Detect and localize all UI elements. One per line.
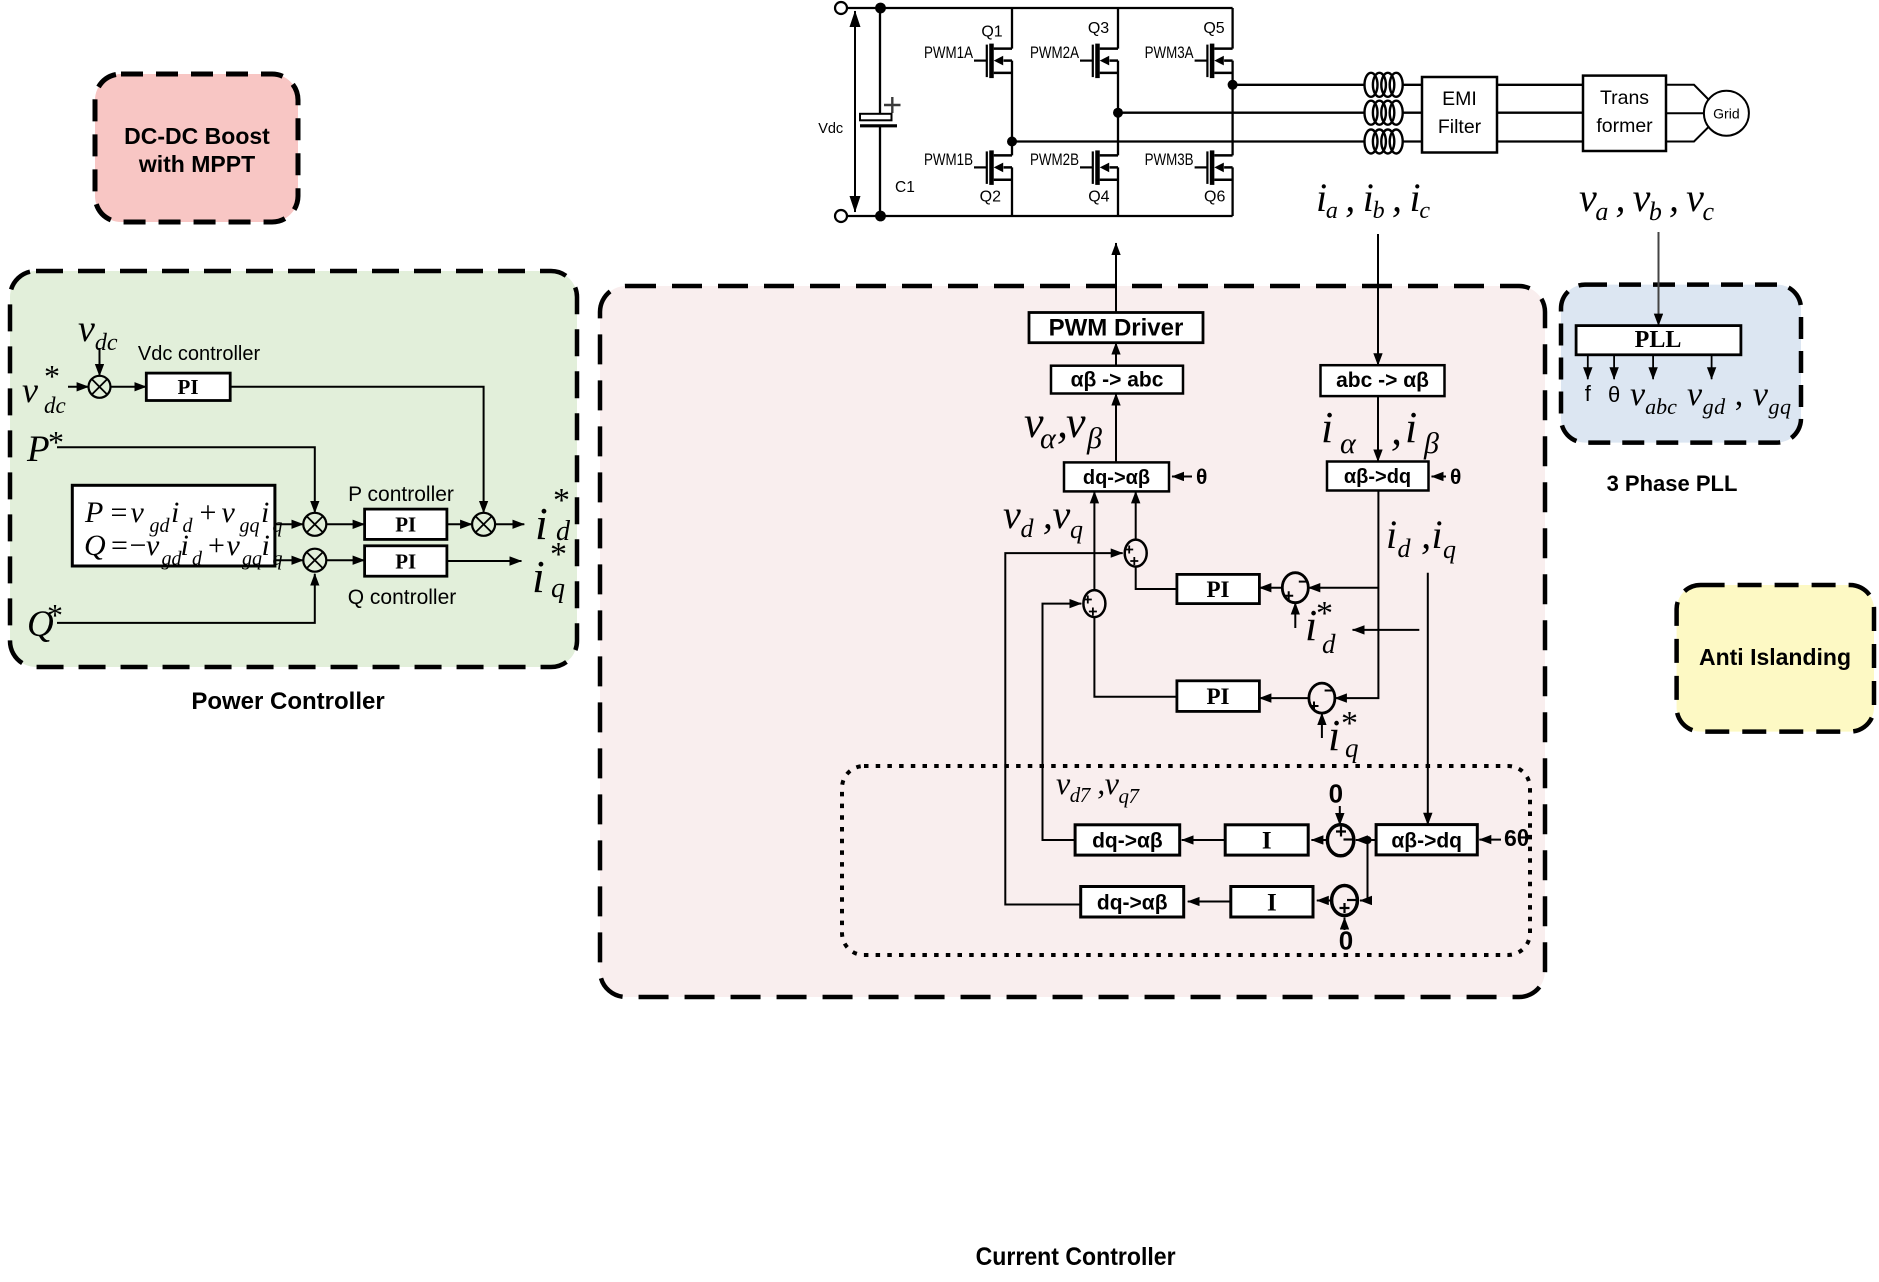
svg-text:β: β [1086, 422, 1102, 455]
svg-text:6θ: 6θ [1504, 825, 1529, 851]
svg-text:q: q [551, 573, 565, 604]
svg-text:v: v [131, 496, 145, 529]
svg-text:αβ->dq: αβ->dq [1344, 466, 1411, 488]
svg-text:Q1: Q1 [981, 24, 1002, 41]
svg-text:abc -> αβ: abc -> αβ [1336, 369, 1429, 392]
svg-text:C1: C1 [895, 179, 915, 196]
svg-text:Grid: Grid [1713, 106, 1739, 122]
svg-text:3 Phase PLL: 3 Phase PLL [1607, 471, 1738, 496]
svg-text:d: d [192, 548, 203, 570]
svg-text:θ: θ [1450, 466, 1461, 489]
svg-text:with MPPT: with MPPT [138, 151, 255, 177]
svg-text:α: α [1040, 422, 1057, 455]
svg-text:q: q [1345, 733, 1359, 763]
svg-text:i: i [261, 496, 269, 529]
svg-text:0: 0 [1339, 926, 1353, 956]
svg-text:0: 0 [1329, 779, 1343, 809]
svg-text:v: v [222, 496, 236, 529]
svg-text:Vdc: Vdc [818, 121, 843, 137]
svg-text:*: * [47, 597, 63, 633]
svg-text:i: i [171, 496, 179, 529]
svg-text:PI: PI [395, 550, 416, 574]
svg-text:d: d [1322, 629, 1336, 659]
svg-text:dq->αβ: dq->αβ [1092, 830, 1163, 853]
svg-text:Q4: Q4 [1088, 189, 1109, 206]
svg-text:=: = [111, 496, 128, 529]
svg-text:Vdc controller: Vdc controller [138, 343, 261, 365]
svg-text:i: i [181, 529, 189, 562]
svg-text:PI: PI [1207, 577, 1230, 602]
svg-text:PWM3B: PWM3B [1145, 150, 1194, 169]
svg-text:EMI: EMI [1442, 88, 1477, 110]
svg-text:dq->αβ: dq->αβ [1097, 892, 1168, 915]
svg-text:Power Controller: Power Controller [191, 688, 384, 715]
svg-text:I: I [1262, 828, 1272, 855]
svg-text:PI: PI [178, 375, 199, 399]
svg-text:v: v [146, 529, 160, 562]
svg-text:v: v [227, 529, 241, 562]
svg-text:αβ -> abc: αβ -> abc [1071, 369, 1164, 392]
svg-text:dc: dc [44, 393, 66, 418]
svg-text:Q3: Q3 [1088, 20, 1109, 37]
svg-text:=: = [111, 529, 128, 562]
svg-text:i: i [532, 551, 545, 602]
svg-text:PWM Driver: PWM Driver [1049, 315, 1184, 342]
svg-text:P: P [84, 496, 103, 529]
svg-text:v: v [1066, 398, 1086, 447]
svg-text:q: q [273, 548, 283, 570]
svg-text:i: i [262, 529, 270, 562]
svg-text:Filter: Filter [1438, 116, 1482, 138]
svg-text:Q2: Q2 [980, 189, 1001, 206]
svg-text:former: former [1596, 115, 1653, 137]
svg-text:DC-DC Boost: DC-DC Boost [124, 123, 270, 149]
svg-text:θ: θ [1608, 382, 1620, 407]
svg-text:+: + [208, 529, 225, 562]
svg-text:dq->αβ: dq->αβ [1083, 467, 1150, 489]
svg-text:Anti Islanding: Anti Islanding [1699, 644, 1851, 670]
svg-text:I: I [1267, 890, 1277, 917]
svg-text:β: β [1423, 427, 1439, 460]
svg-text:+: + [200, 496, 217, 529]
svg-text:P: P [26, 429, 50, 470]
svg-text:i: i [1321, 403, 1333, 452]
svg-text:PI: PI [1207, 684, 1230, 709]
svg-text:PWM1B: PWM1B [924, 150, 973, 169]
svg-text:gd: gd [162, 548, 183, 570]
svg-text:Current Controller: Current Controller [976, 1243, 1176, 1271]
svg-text:i: i [1405, 403, 1417, 452]
svg-text:gq: gq [240, 515, 260, 537]
svg-text:f: f [1585, 381, 1592, 406]
svg-text:Q: Q [84, 529, 106, 562]
svg-text:gq: gq [242, 548, 262, 570]
svg-text:αβ->dq: αβ->dq [1391, 829, 1462, 852]
svg-text:v: v [22, 370, 38, 410]
svg-text:PLL: PLL [1635, 327, 1682, 353]
svg-text:,: , [1391, 405, 1402, 454]
svg-text:*: * [550, 536, 567, 573]
svg-text:Q controller: Q controller [348, 586, 457, 609]
svg-text:i: i [1328, 711, 1340, 760]
svg-text:*: * [553, 482, 570, 519]
svg-text:α: α [1340, 427, 1357, 460]
svg-text:*: * [1316, 595, 1333, 632]
svg-text:Trans: Trans [1600, 87, 1649, 109]
svg-text:*: * [48, 424, 64, 460]
svg-text:PI: PI [395, 513, 416, 537]
svg-text:−: − [130, 529, 147, 562]
svg-text:Q6: Q6 [1204, 189, 1225, 206]
svg-text:P controller: P controller [348, 483, 454, 506]
svg-text:Q5: Q5 [1203, 20, 1224, 37]
svg-text:PWM2B: PWM2B [1030, 150, 1079, 169]
svg-text:i: i [535, 498, 548, 549]
svg-text:q: q [273, 515, 283, 537]
svg-text:PWM1A: PWM1A [924, 43, 974, 62]
svg-text:θ: θ [1196, 466, 1207, 489]
svg-text:PWM2A: PWM2A [1030, 43, 1080, 62]
svg-text:*: * [44, 358, 60, 394]
svg-text:PWM3A: PWM3A [1145, 43, 1195, 62]
